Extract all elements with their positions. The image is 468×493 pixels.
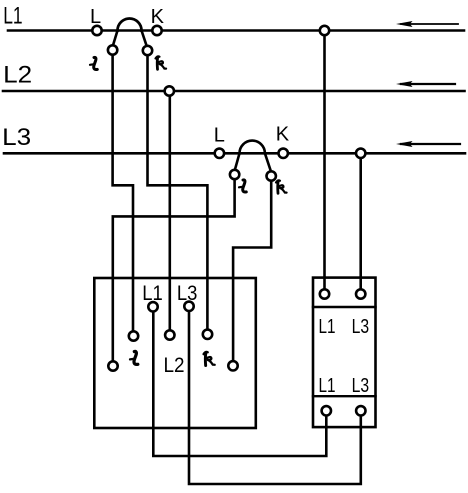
svg-text:K: K [151,6,165,28]
svg-text:L1: L1 [319,315,336,338]
svg-text:K: K [276,124,290,146]
svg-text:L2: L2 [3,62,32,89]
svg-text:L1: L1 [142,282,163,305]
svg-text:L: L [214,125,225,147]
svg-text:L3: L3 [2,124,31,151]
svg-text:L1: L1 [3,3,22,30]
svg-text:L: L [90,6,101,28]
svg-text:L1: L1 [319,374,336,397]
svg-text:L3: L3 [177,282,198,305]
svg-text:L3: L3 [352,374,370,397]
svg-text:L2: L2 [164,353,185,377]
svg-text:L3: L3 [352,315,370,338]
